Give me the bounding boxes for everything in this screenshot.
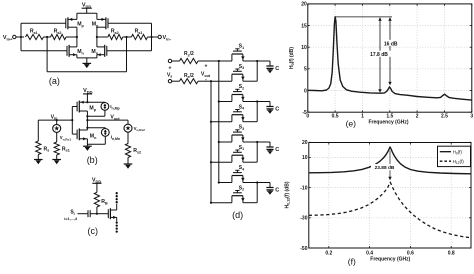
transistor Mp right <box>92 13 108 47</box>
resistor Rs/2 top <box>172 51 232 63</box>
noise source Vn,Rs1 <box>53 120 72 141</box>
power VDD (b) <box>83 88 93 102</box>
svg-text:20: 20 <box>301 2 307 8</box>
transistor Mp left <box>66 13 85 47</box>
svg-text:Vin+: Vin+ <box>3 35 13 41</box>
node Si input label <box>64 209 78 220</box>
node right drain <box>96 36 108 38</box>
noise source In,Mp <box>86 101 119 117</box>
wire cell3 cap node <box>243 141 270 143</box>
svg-text:i=1,...,4: i=1,...,4 <box>64 217 78 221</box>
wire cell1 top line <box>219 60 232 62</box>
svg-text:-30: -30 <box>300 216 307 222</box>
power VDD (c) <box>92 178 102 193</box>
annotation 23.88 dB arrow <box>388 151 391 181</box>
svg-text:2.5: 2.5 <box>441 114 448 120</box>
node Vin (b) <box>38 114 73 121</box>
transistor S4 (cell 2 bottom switch) <box>232 104 245 121</box>
wire Vin+ to PMOS gate <box>21 23 66 37</box>
svg-text:20: 20 <box>302 140 308 146</box>
svg-text:(a): (a) <box>49 76 60 86</box>
wire cell4 right vertical <box>243 183 257 203</box>
svg-text:H0(f) (dB): H0(f) (dB) <box>289 47 295 69</box>
wire feedback bottom <box>47 37 126 72</box>
svg-text:15: 15 <box>301 23 307 29</box>
transistor S3 (cell 1 bottom switch) <box>232 64 245 81</box>
svg-text:(b): (b) <box>87 155 98 165</box>
svg-text:C: C <box>275 147 279 153</box>
transistor Mn left <box>67 45 85 58</box>
wire Vin+ to node <box>16 36 24 38</box>
plot f curve H12 dashed <box>309 182 471 238</box>
capacitor C (cell 4) <box>266 183 279 195</box>
transistor Mp (b) <box>77 101 97 121</box>
svg-text:1: 1 <box>361 114 364 120</box>
node between Rs2 Rs1 right <box>125 36 127 38</box>
svg-text:Rs/2: Rs/2 <box>184 51 194 57</box>
svg-text:0: 0 <box>304 88 307 94</box>
annotation 16 dB arrow <box>388 17 391 85</box>
svg-text:C: C <box>275 187 279 193</box>
node Vin+ terminal <box>3 35 16 41</box>
wire cell2 bottom line <box>211 121 232 123</box>
node Vs- terminal (d) <box>168 80 171 83</box>
resistor Rs2 (b) <box>125 132 141 164</box>
plot f gridlines <box>309 143 471 249</box>
resistor Rs/2 bottom <box>172 73 211 84</box>
resistor Rs (b) <box>36 120 50 159</box>
svg-text:0.5: 0.5 <box>332 114 339 120</box>
node left drain <box>76 36 78 38</box>
ground (a) <box>77 58 97 68</box>
noise source Vn,Rs2 <box>124 120 145 132</box>
plot f curve H0 solid <box>309 147 471 174</box>
wire cell3 right vertical <box>243 142 257 162</box>
caption (d) <box>232 210 243 220</box>
plot f x tick labels <box>325 251 455 257</box>
resistor Rs2 right <box>108 29 131 40</box>
ground Mn (b) <box>83 146 92 151</box>
wire cell4 cap node <box>243 181 270 183</box>
capacitor C (cell 3) <box>266 142 279 154</box>
capacitor C (cell 1) <box>266 61 279 73</box>
wire cell3 top line <box>219 141 232 143</box>
node bias (c) <box>96 213 98 215</box>
node Vs+ terminal (d) <box>168 59 171 62</box>
ground Rs (b) <box>34 160 43 165</box>
caption (f) <box>348 256 356 266</box>
svg-text:-10: -10 <box>300 185 307 191</box>
noise source In,Mn <box>86 127 120 145</box>
plot e x tick labels <box>306 114 473 120</box>
wire cell1 right vertical <box>243 61 257 81</box>
svg-text:+: + <box>169 65 172 71</box>
wire plus bus (d) <box>218 60 220 184</box>
plot f axis labels <box>285 181 411 262</box>
svg-text:10: 10 <box>301 45 307 51</box>
annotation 17.8 dB label <box>367 51 392 58</box>
wire gate column (b) <box>72 107 77 135</box>
plot e axes box <box>308 4 472 112</box>
svg-text:(e): (e) <box>346 119 357 129</box>
wire continuation dots (c) <box>116 192 118 233</box>
legend box (f) <box>438 146 471 166</box>
resistor Rs1 right <box>131 29 158 40</box>
wire right gates tie <box>107 23 153 51</box>
svg-text:10: 10 <box>302 155 308 161</box>
annotation 17.8 dB arrow <box>335 17 392 93</box>
capacitor C (cell 2) <box>266 102 279 114</box>
svg-text:0.8: 0.8 <box>448 251 455 257</box>
legend entry H12 <box>440 159 464 165</box>
transistor switch (c) <box>97 204 117 222</box>
svg-text:+: + <box>204 64 207 70</box>
ground Rs2 (b) <box>124 164 133 169</box>
ground Rs1 (b) <box>52 160 61 165</box>
resistor Rs1 (b) <box>54 132 70 159</box>
svg-text:VDD: VDD <box>82 3 92 9</box>
wire Vin+ to NMOS gate <box>21 37 67 51</box>
wire cell1 cap node <box>243 60 270 62</box>
plot e gridlines <box>308 4 472 112</box>
wire cell4 bottom line <box>211 202 232 204</box>
legend entry H0 <box>440 150 463 156</box>
svg-text:2: 2 <box>416 114 419 120</box>
plot f y tick labels <box>300 140 307 252</box>
plot e curve H0 <box>308 17 472 100</box>
annotation 23.88 dB label <box>371 164 398 171</box>
transistor S2 (cell 2 top switch) <box>232 84 245 101</box>
svg-text:(c): (c) <box>88 226 99 236</box>
svg-text:5: 5 <box>304 67 307 73</box>
capacitor coupling (c) <box>78 210 97 217</box>
caption (b) <box>87 155 98 165</box>
node Vin- terminal <box>158 35 172 41</box>
resistor Rs1 left <box>26 29 48 40</box>
wire cell1 bottom line <box>211 80 232 82</box>
svg-text:16 dB: 16 dB <box>384 41 398 47</box>
resistor Rs2 left <box>47 29 77 40</box>
svg-text:0.2: 0.2 <box>325 251 332 257</box>
plot f axes box <box>309 142 471 248</box>
wire minus bus (d) <box>210 80 212 204</box>
transistor Mn (b) <box>77 120 97 146</box>
svg-text:3: 3 <box>470 114 473 120</box>
transistor S1 (cell 1 top switch) <box>232 44 245 61</box>
wire cell3 bottom line <box>211 161 232 163</box>
svg-text:C: C <box>275 66 279 72</box>
wire cell2 cap node <box>243 100 270 102</box>
power VDD rail (a) <box>77 3 97 14</box>
transistor Mn right <box>91 45 106 58</box>
wire cell4 top line <box>219 182 232 184</box>
node Vout labels (d) <box>201 64 211 83</box>
caption (c) <box>88 226 99 236</box>
svg-text:Frequency (GHz): Frequency (GHz) <box>368 120 408 126</box>
node between Rs1 Rs2 left <box>46 36 48 38</box>
caption (e) <box>346 119 357 129</box>
svg-text:(d): (d) <box>232 210 243 220</box>
svg-text:17.8 dB: 17.8 dB <box>370 52 388 58</box>
resistor RB <box>94 192 108 213</box>
svg-text:C: C <box>275 106 279 112</box>
svg-text:(f): (f) <box>348 256 356 266</box>
transistor S2 (cell 4 bottom switch) <box>232 185 245 202</box>
transistor S4 (cell 4 top switch) <box>232 165 245 182</box>
wire cell2 top line <box>219 101 232 103</box>
plot e axis labels <box>289 47 409 126</box>
transistor S3 (cell 3 top switch) <box>232 125 245 142</box>
svg-text:Frequency (GHz): Frequency (GHz) <box>370 256 410 262</box>
svg-text:0: 0 <box>306 114 309 120</box>
caption (a) <box>49 76 60 86</box>
transistor S1 (cell 3 bottom switch) <box>232 145 245 162</box>
svg-text:-50: -50 <box>300 246 307 252</box>
svg-text:-5: -5 <box>302 110 307 116</box>
svg-text:Rs/2: Rs/2 <box>184 73 194 79</box>
node Vout (b) <box>86 115 128 122</box>
wire cell2 right vertical <box>243 102 257 122</box>
plot e y tick labels <box>301 2 307 116</box>
svg-text:23.88 dB: 23.88 dB <box>375 165 395 171</box>
annotation 16 dB label <box>382 40 400 48</box>
source Vs labels <box>167 65 173 82</box>
svg-text:Vin-: Vin- <box>163 35 172 41</box>
